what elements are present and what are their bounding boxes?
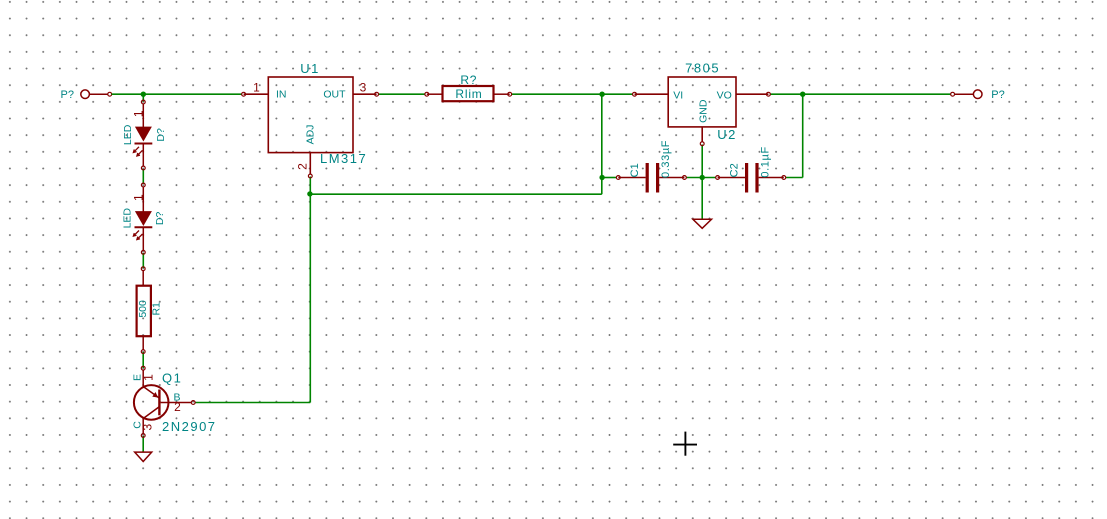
wire node A to C1 left (602, 177, 616, 179)
regulator U2 body (7805 box) (633, 77, 771, 146)
wire ADJ pin to junction (309, 177, 311, 195)
cursor crosshair (673, 432, 697, 456)
wire vertical x=602 from main wire down to ADJ row (601, 94, 603, 194)
resistor R2 (Rlim) body (425, 86, 512, 101)
connector P2 symbol (right P?) (951, 90, 982, 99)
transistor Q1 body (2N2907 PNP) (134, 366, 195, 437)
svg-text:LM317: LM317 (320, 151, 367, 166)
wire 7805 GND pin down to cap row (701, 145, 703, 178)
wire LED D2 cathode to R1 (142, 253, 144, 268)
ground symbol under Q1 (135, 452, 152, 461)
svg-text:VO: VO (717, 90, 732, 102)
wire Rlim to 7805 VI (512, 93, 633, 95)
wire ADJ row horizontal y=194.2 (310, 193, 602, 195)
svg-text:D?: D? (155, 128, 167, 142)
svg-text:0.33µF: 0.33µF (660, 140, 672, 178)
ground symbol under 7805 (693, 219, 712, 228)
wire output junction to P2 (803, 93, 951, 95)
wire Q1 collector to ground (142, 436, 144, 452)
junction at node A (x=602 on main wire) (599, 92, 604, 97)
svg-text:C2: C2 (728, 163, 740, 177)
svg-text:2: 2 (174, 400, 181, 414)
svg-text:P?: P? (61, 89, 74, 101)
LED D1 (top) body (133, 100, 152, 170)
svg-text:D?: D? (154, 212, 166, 226)
op-amp U1 body (LM317 regulator box) (242, 77, 379, 178)
svg-text:LED: LED (122, 124, 134, 145)
svg-text:3: 3 (140, 424, 154, 431)
svg-text:R?: R? (460, 73, 477, 87)
svg-text:0.1µF: 0.1µF (759, 146, 771, 177)
capacitor C2 body (716, 163, 786, 193)
resistor R1 body (137, 267, 151, 354)
svg-text:500: 500 (137, 300, 149, 318)
svg-text:R1: R1 (150, 302, 162, 316)
LED D2 (bottom) body (133, 183, 152, 254)
wire Q1 base row horizontal y=402.5 (195, 402, 311, 404)
wire U1 OUT to Rlim (379, 93, 426, 95)
svg-text:GND: GND (698, 99, 710, 123)
junction at GND node on cap row (700, 175, 705, 180)
svg-text:Rlim: Rlim (455, 87, 482, 101)
wire R1 to Q1 emitter (142, 352, 144, 368)
svg-text:Q1: Q1 (162, 371, 182, 386)
svg-text:LED: LED (122, 208, 134, 229)
capacitor C1 body (616, 163, 686, 193)
svg-text:1: 1 (253, 81, 260, 95)
svg-text:C1: C1 (629, 163, 641, 177)
wire C1 right to C2 left (686, 177, 716, 179)
wire 7805 VO to output junction (770, 93, 802, 95)
svg-text:2N2907: 2N2907 (162, 419, 217, 434)
svg-text:P?: P? (991, 89, 1004, 101)
svg-text:VI: VI (673, 90, 683, 102)
wire main net: P1 to U1 IN (112, 93, 242, 95)
wire GND junction down to ground symbol (701, 178, 703, 220)
svg-text:1: 1 (142, 374, 156, 381)
wire junction to LED D1 anode (142, 94, 144, 101)
svg-text:U1: U1 (300, 61, 320, 76)
svg-text:2: 2 (296, 163, 310, 170)
connector P1 symbol (left P?) (81, 90, 112, 99)
junction at C1 row x=602 (599, 175, 604, 180)
junction at output node (800, 92, 805, 97)
wire vertical x=802.7 output to cap row (802, 94, 804, 177)
svg-text:U2: U2 (717, 127, 737, 142)
svg-text:7805: 7805 (685, 60, 720, 75)
svg-text:IN: IN (276, 89, 287, 101)
svg-text:3: 3 (360, 81, 367, 95)
svg-text:1: 1 (132, 110, 146, 117)
junction at ADJ node (307, 191, 312, 196)
svg-text:OUT: OUT (323, 89, 346, 101)
wire C2 right to output drop (786, 177, 803, 179)
svg-text:1: 1 (132, 194, 146, 201)
wire LED D1 cathode to LED D2 anode (142, 169, 144, 184)
svg-text:ADJ: ADJ (304, 125, 316, 145)
wire vertical x=310 down to Q1 base row (309, 194, 311, 402)
junction at LED chain / main wire (141, 92, 146, 97)
